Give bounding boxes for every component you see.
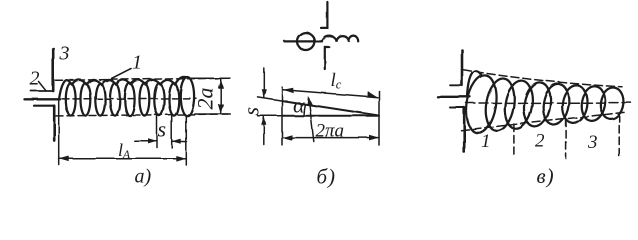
angle alpha arc (b): [304, 104, 305, 116]
screen lower segment with foot (b): [325, 47, 329, 69]
envelope bottom dashed (v): [461, 112, 625, 130]
inductor coil (b): [322, 36, 358, 42]
svg-text:б): б): [317, 165, 337, 189]
dimension cap right (b): [378, 91, 380, 145]
dimension 2a line with arrows (a): [218, 78, 224, 114]
node helix lead-in (a): [59, 80, 71, 99]
axis dash line (v): [466, 102, 632, 104]
svg-text:lA: lA: [118, 140, 131, 161]
conical helix lead-in front of first turn (v): [468, 71, 482, 96]
conical helix turns (v): [463, 73, 626, 135]
helix end turn (a): [180, 77, 194, 116]
svg-text:1: 1: [132, 52, 142, 74]
wire coax shell top (v): [450, 84, 462, 86]
wire coax shell bottom (a): [34, 105, 53, 107]
svg-text:а): а): [135, 166, 152, 188]
dimension 2a extension lines (a): [191, 77, 230, 79]
svg-text:3: 3: [587, 132, 598, 153]
dimension s arrows (b): [261, 68, 266, 145]
svg-text:3: 3: [59, 43, 70, 65]
hypotenuse unrolled turn (b): [282, 101, 378, 116]
generator circle (b): [297, 33, 314, 50]
helix turn ellipses (a): [66, 83, 179, 115]
leader for label 2 (a): [39, 82, 47, 91]
construction line axis (a): [62, 97, 196, 100]
dimension lA extension lines (a): [58, 100, 60, 165]
construction line top tangent (a): [56, 78, 231, 80]
dimension 2pi-a line with arrows (b): [282, 135, 379, 141]
helix connecting arcs (a): [72, 77, 187, 85]
angle alpha arrow (b): [307, 96, 314, 142]
svg-text:lc: lc: [331, 70, 342, 92]
svg-text:1: 1: [481, 131, 491, 152]
screen 3 upper plate (a): [52, 49, 55, 92]
wire coax feed line (v): [438, 96, 471, 98]
wire coax shell bottom (v): [450, 107, 464, 109]
extension of base for s (b): [258, 115, 283, 117]
screen 3 lower plate (a): [53, 106, 56, 141]
screen upper segment with foot (b): [321, 2, 327, 28]
extension of hypotenuse for s (b): [258, 97, 283, 101]
section divider 2 dashed (v): [565, 119, 567, 159]
svg-text:в): в): [537, 164, 555, 188]
svg-text:α: α: [293, 93, 305, 118]
leader for label 1 (a): [107, 69, 132, 82]
svg-text:s: s: [239, 107, 264, 116]
dimension s arrows (a): [134, 138, 186, 144]
wire generator lead (b): [285, 40, 322, 42]
svg-text:s: s: [158, 117, 167, 142]
wire coax shell top (a): [31, 90, 53, 92]
dimension cap left (b): [281, 87, 283, 145]
wire coax feed line (a): [25, 98, 61, 100]
section divider 3 dashed (v): [618, 114, 620, 159]
dimension lA line with arrows (a): [59, 156, 186, 162]
envelope top dashed (v): [464, 70, 623, 87]
construction line bottom tangent (a): [56, 114, 230, 116]
dimension lc line with arrows (b): [283, 88, 378, 98]
svg-text:2: 2: [535, 131, 545, 152]
screen upper plate (v): [461, 50, 464, 85]
svg-text:2πа: 2πа: [316, 121, 345, 142]
svg-text:2a: 2a: [193, 88, 218, 110]
svg-text:2: 2: [30, 68, 40, 90]
base 2pi-a side (b): [282, 115, 379, 117]
screen lower plate (v): [463, 108, 466, 153]
section divider 1 dashed (v): [513, 124, 515, 159]
dimension s extension lines (a): [156, 116, 158, 148]
